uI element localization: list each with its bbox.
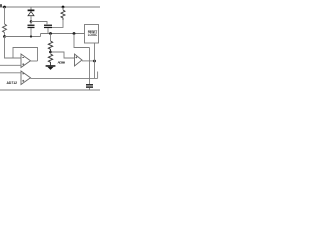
- wire node B down to amp input: [5, 37, 22, 59]
- capacitor C2: [44, 25, 52, 28]
- diode D1 triangle: [28, 12, 34, 16]
- comparator U2: [75, 54, 83, 66]
- comparator U2 plus mark: [75, 56, 77, 58]
- wire box bottom to output line: [94, 43, 96, 78]
- capacitor C1 lead: [30, 22, 32, 25]
- wire U1B input from edge: [0, 72, 21, 74]
- op-amp U1B minus mark: [22, 72, 24, 75]
- diode D1 lead from rail: [30, 7, 32, 10]
- wire bottom ground rail: [0, 89, 100, 91]
- wire node B to step: [5, 36, 41, 38]
- node D divider top dot: [49, 32, 52, 35]
- wire node F down and right: [74, 34, 90, 48]
- diode D1 cathode bar: [28, 10, 35, 12]
- op-amp U1A minus mark: [22, 56, 24, 59]
- node supply edge stub: [0, 4, 2, 7]
- node G output junction dot: [93, 60, 96, 63]
- resistor R2: [61, 10, 65, 20]
- wire C3 to bottom rail: [89, 88, 91, 90]
- wire node C to C2: [31, 22, 47, 25]
- op-amp U1A: [21, 54, 31, 68]
- wire right column down to C3: [89, 48, 91, 85]
- wire step jog: [40, 34, 42, 37]
- resistor R4: [48, 54, 52, 65]
- resistor R1: [3, 24, 7, 33]
- wire R2 top lead: [62, 7, 64, 10]
- wire left branch upper: [4, 7, 6, 24]
- node C junction dot: [30, 20, 33, 23]
- node E divider tap dot: [49, 51, 52, 54]
- wire divider top lead: [50, 34, 52, 42]
- box reset logic: [85, 25, 99, 44]
- svg-text:AD589: AD589: [58, 60, 66, 64]
- svg-text:AD712: AD712: [7, 81, 18, 85]
- wire C1 to main line: [30, 28, 32, 36]
- wire U1A plus input from edge: [0, 64, 21, 66]
- svg-text:LOGIC: LOGIC: [88, 33, 98, 37]
- op-amp U1B: [21, 71, 31, 85]
- wire R1 to node B: [4, 33, 6, 37]
- wire C2 to main line: [47, 28, 49, 33]
- node R2 top junction dot: [62, 6, 65, 9]
- node B junction dot: [3, 35, 6, 38]
- ground: [46, 65, 56, 70]
- op-amp U1B plus mark: [22, 80, 24, 82]
- node C1 bottom dot: [30, 35, 32, 37]
- wire top supply rail: [0, 6, 100, 8]
- node F main-line dot: [73, 32, 76, 35]
- wire main line to box: [41, 33, 85, 35]
- wire U1B output: [31, 77, 98, 79]
- wire D1 to node C: [30, 16, 32, 22]
- resistor R3: [48, 41, 52, 52]
- wire U2 output: [82, 60, 95, 62]
- wire U1A feedback loop: [13, 48, 38, 62]
- node A junction dot on top rail: [3, 6, 6, 9]
- capacitor C1: [28, 25, 35, 28]
- capacitor C3: [86, 84, 93, 88]
- wire U1A output: [31, 60, 38, 62]
- op-amp U1A plus mark: [22, 63, 24, 65]
- wire C2 bottom to R2: [52, 20, 63, 27]
- wire tap to comparator: [51, 52, 75, 58]
- wire output hook: [97, 72, 99, 79]
